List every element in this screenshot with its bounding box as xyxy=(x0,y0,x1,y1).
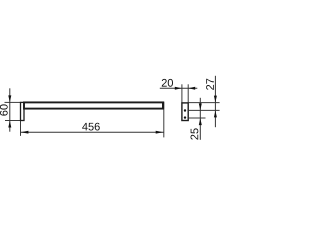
dimension 60: dimension line xyxy=(9,88,11,131)
dimension 20: dimension line (runs under text to right tail) xyxy=(160,87,198,89)
dimension 25: dimension line xyxy=(199,98,201,140)
dimension 20: right arrow (points left to plate right edge) xyxy=(188,87,195,90)
end cap (wall rosette, front view) xyxy=(21,102,25,120)
dimension 456: left arrow (points left) xyxy=(21,131,29,134)
extension lines up from wall plate (20 dim references) xyxy=(181,84,183,102)
node: plate top level line (27 dim top reference) xyxy=(189,102,220,104)
extension line: cap left edge down to 456 dim xyxy=(20,121,22,136)
dimension 20: left arrow (points right to plate left edge) xyxy=(175,87,182,90)
screw hole upper xyxy=(184,109,186,111)
label 25 (rotated) xyxy=(191,128,199,139)
wire: bottom extension line left of end cap (60 dim bottom reference) xyxy=(5,120,20,122)
label 20 xyxy=(162,79,173,87)
dimension 456: right arrow (points right) xyxy=(156,131,164,134)
dimension 25: bottom arrow (points up to lower hole line) xyxy=(199,118,202,125)
wall plate (side view) xyxy=(182,103,188,121)
screw hole lower xyxy=(184,116,186,118)
dimension 456: dimension line xyxy=(21,131,164,133)
dimension 60: top arrow (points down to bar top line) xyxy=(8,95,11,102)
bar right end edge (thicker) xyxy=(162,102,164,110)
dimension 27: dimension line xyxy=(214,76,216,127)
dimension 27: top arrow (points down to plate top line) xyxy=(214,96,217,103)
extension line: bar right end down to 456 dim xyxy=(163,110,165,138)
dimension 60: bottom arrow (points up to cap bottom line) xyxy=(8,121,11,128)
label 60 (rotated) xyxy=(0,104,8,115)
node: lower hole level line (25 dim bottom reference) xyxy=(189,117,206,119)
dimension 27: bottom arrow (points up to upper hole line) xyxy=(214,111,217,118)
label 27 (rotated) xyxy=(206,79,214,90)
node: upper hole level line (27 dim bottom / 25 dim top reference) xyxy=(189,109,220,111)
dimension 25: top arrow (points down to upper hole line) xyxy=(199,103,202,110)
bar (towel rail, front view) xyxy=(24,102,163,108)
label 456 xyxy=(82,123,100,131)
wire: top extension line left of end cap (60 dim top reference) xyxy=(5,101,21,103)
